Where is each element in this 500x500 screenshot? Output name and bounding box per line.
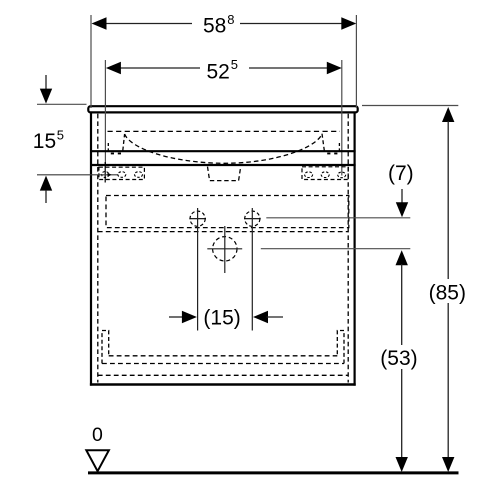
dimension 15.5 up arrow xyxy=(40,176,52,191)
left bracket arrow tip xyxy=(108,173,112,177)
dimension 15.5 top extension line xyxy=(37,103,87,105)
dimension (15) right arrow xyxy=(253,311,268,323)
right bracket slot 2 xyxy=(321,172,329,178)
faucet leader line xyxy=(266,217,410,219)
dimension (15) left arrow xyxy=(169,316,184,318)
cabinet top solid line xyxy=(90,164,356,166)
basin right end stub xyxy=(338,143,340,151)
left plinth step xyxy=(102,331,109,364)
svg-text:(7): (7) xyxy=(388,162,414,185)
dimension (53) arrow line xyxy=(396,250,408,265)
drain crosshair horizontal xyxy=(207,248,242,250)
right faucet centerline xyxy=(251,208,253,331)
datum triangle xyxy=(86,450,109,471)
basin bottom edge solid line xyxy=(90,150,356,152)
basin left end stub xyxy=(107,143,109,151)
svg-text:(53): (53) xyxy=(380,347,417,370)
cabinet inner wall right dashed xyxy=(347,114,349,383)
dimension 15.5 bottom extension line / bracket centerline xyxy=(37,174,118,176)
left faucet hole xyxy=(190,211,205,226)
drawer separation dashed line xyxy=(98,231,348,233)
basin rim dashed line xyxy=(108,130,341,132)
right bracket fixing hole xyxy=(338,172,346,178)
svg-text:(15): (15) xyxy=(203,307,240,330)
svg-text:(85): (85) xyxy=(429,281,466,304)
floor line xyxy=(88,471,459,474)
dimension (85) arrow line xyxy=(442,107,454,122)
dimension 52.5 line xyxy=(118,67,200,69)
right mounting bracket xyxy=(302,167,348,180)
cabinet bottom edge xyxy=(90,383,356,386)
dimension 58.8 right arrowhead xyxy=(341,17,356,29)
dimension (7) arrow xyxy=(401,189,403,204)
dimension 52.5 left arrowhead xyxy=(106,62,121,74)
left bracket slot 1 xyxy=(118,172,126,178)
basin left end wall xyxy=(123,134,125,151)
dimension 15.5 down arrow xyxy=(45,75,47,90)
left bracket slot 2 xyxy=(135,172,143,178)
dimension (85) top extension line xyxy=(362,105,458,107)
drain leader line xyxy=(261,248,411,250)
basin bottom curve xyxy=(125,134,322,164)
cabinet right edge xyxy=(354,113,356,385)
svg-text:15: 15 xyxy=(33,130,56,153)
drain crosshair vertical xyxy=(224,226,226,273)
left bracket fixing hole xyxy=(102,172,109,178)
extension line left (52.5) xyxy=(104,60,106,164)
svg-text:8: 8 xyxy=(227,12,234,27)
dimension 58.8 line xyxy=(104,23,192,25)
extension line right (58.8) xyxy=(355,15,357,108)
svg-text:5: 5 xyxy=(57,128,64,143)
cabinet inner wall left dashed xyxy=(97,114,99,383)
left mounting bracket xyxy=(99,167,144,179)
cabinet left edge xyxy=(90,113,92,385)
extension line right (52.5) xyxy=(341,60,343,176)
basin right end wall xyxy=(322,134,324,151)
right bracket slot 1 xyxy=(305,172,313,178)
svg-text:0: 0 xyxy=(92,424,103,446)
washbasin slab xyxy=(88,106,357,112)
left bracket hole centerline vertical xyxy=(104,162,106,183)
drain hole xyxy=(213,237,237,261)
dimension 58.8 left arrowhead xyxy=(92,17,107,29)
bottom drawer dashed lines xyxy=(109,355,338,357)
right faucet hole xyxy=(245,211,260,226)
dimension 52.5 right arrowhead xyxy=(327,62,342,74)
svg-text:52: 52 xyxy=(207,60,230,83)
upper drawer dashed outline xyxy=(106,196,349,228)
siphon recess trapezoid xyxy=(208,167,241,181)
extension line left (58.8) xyxy=(90,15,92,108)
left faucet centerline xyxy=(197,208,199,331)
right plinth step xyxy=(337,331,344,364)
svg-text:5: 5 xyxy=(231,57,238,72)
svg-text:58: 58 xyxy=(203,15,226,38)
overflow tick marks xyxy=(111,153,114,155)
